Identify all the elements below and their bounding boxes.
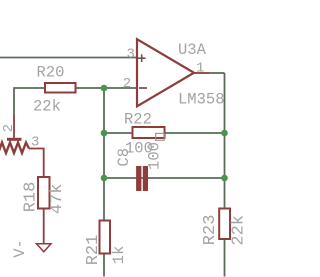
wire C8 row [104,177,225,179]
resistor R22 [133,127,165,138]
svg-text:22k: 22k [33,98,61,116]
op-amp minus sign [139,87,147,89]
wire pot pin3 elbow to R18 [29,149,44,178]
junction at C8 right / R23 [221,175,228,182]
wire net to pin 2 (R20 row) [14,87,137,89]
svg-text:47k: 47k [48,183,67,214]
junction at R20 right / pin2 [101,85,108,92]
svg-text:3: 3 [127,46,135,62]
junction at R22 left [101,130,108,137]
svg-text:R22: R22 [124,111,152,129]
op-amp output pin stub [194,72,209,74]
wire net to pin 3 [0,57,137,59]
svg-text:R21: R21 [84,235,103,266]
potentiometer wiper T-bar [7,138,22,141]
junction at C8 left [101,175,108,182]
resistor R23 [219,209,230,240]
svg-text:1k: 1k [110,246,128,265]
wire R22 row [104,132,225,134]
svg-text:100: 100 [146,142,164,170]
svg-text:U3A: U3A [178,41,207,59]
potentiometer zigzag body [0,143,29,154]
wire pot wiper vertical [13,87,15,115]
R22 pin mark [156,133,165,140]
wire right bus vertical [224,73,226,277]
resistor R20 [45,83,76,93]
svg-text:V-: V- [11,239,29,258]
op-amp plus sign [138,54,146,62]
svg-text:LM358: LM358 [178,91,225,109]
svg-text:R18: R18 [22,182,41,213]
capacitor C8 plate right [143,166,148,191]
wire left bus vertical [103,88,105,277]
junction at output / R22 right [221,130,228,137]
resistor R18 [38,177,50,209]
svg-text:2: 2 [123,76,131,92]
potentiometer wiper pin [13,115,15,138]
svg-text:1: 1 [196,60,204,76]
op-amp U1 triangle [137,39,194,106]
svg-text:R23: R23 [201,215,220,246]
svg-text:C8: C8 [115,148,133,167]
svg-text:2: 2 [1,124,17,132]
resistor R21 [100,221,111,254]
ground V- arrow [37,244,52,252]
svg-text:22k: 22k [229,215,246,246]
svg-text:3: 3 [31,135,39,151]
wire R18 to ground [43,209,45,244]
wire op-amp output [209,72,225,74]
svg-text:R20: R20 [37,64,65,82]
capacitor C8 plate left [136,166,141,191]
